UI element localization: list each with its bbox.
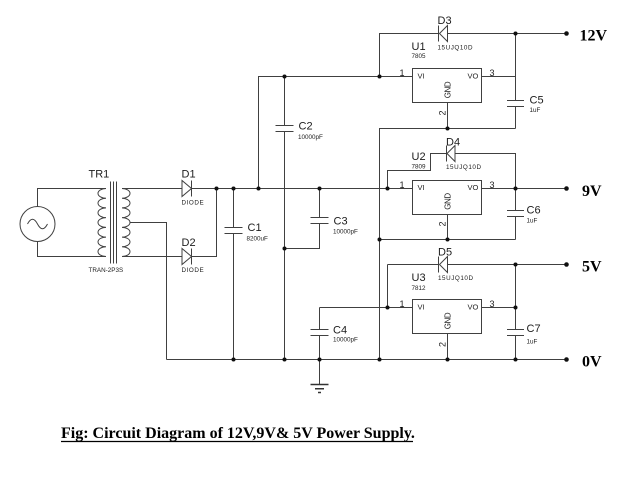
svg-text:GND: GND: [444, 193, 453, 210]
svg-text:C5: C5: [530, 95, 544, 107]
svg-text:C6: C6: [527, 205, 541, 217]
svg-text:TR1: TR1: [89, 169, 110, 181]
ground symbol: [311, 360, 329, 393]
svg-text:1: 1: [399, 68, 404, 78]
wire U3 VI line: [320, 307, 413, 309]
wire D4 feed: [388, 154, 447, 189]
wire center tap: [130, 223, 167, 360]
regulator U3: [413, 300, 482, 334]
svg-text:U1: U1: [412, 41, 426, 53]
svg-text:5V: 5V: [582, 259, 602, 276]
wire D5 feed: [387, 265, 389, 308]
capacitor C4: [311, 308, 329, 360]
wire U2 gnd rail: [379, 239, 516, 241]
wire secondary bottom to D2: [122, 256, 182, 258]
svg-text:DIODE: DIODE: [182, 200, 205, 207]
wire U1 input riser: [259, 77, 413, 189]
svg-text:7805: 7805: [412, 53, 427, 60]
wire ground bus: [379, 129, 381, 360]
capacitor C6: [507, 189, 524, 240]
capacitor C5: [507, 101, 524, 129]
caption: [61, 425, 415, 442]
junction dots U3 line: [386, 306, 518, 310]
junction dot C3 bottom: [283, 247, 287, 251]
junction dots U2 gnd rail: [378, 238, 450, 242]
wire U3 output column: [515, 265, 517, 330]
wire U1 VO: [482, 76, 516, 78]
svg-text:DIODE: DIODE: [182, 267, 205, 274]
wire D4 to output column: [455, 154, 516, 189]
svg-text:2: 2: [437, 342, 447, 347]
capacitor C2: [276, 77, 294, 360]
svg-text:VO: VO: [468, 183, 479, 192]
junction dot U1 gnd: [446, 127, 450, 131]
wire D2 riser: [191, 189, 217, 257]
diode D3: [439, 26, 448, 42]
svg-text:0V: 0V: [582, 354, 602, 371]
svg-text:D1: D1: [182, 169, 196, 181]
wire U1 gnd pin: [447, 103, 449, 129]
junction dots main rail: [215, 187, 518, 191]
svg-text:9V: 9V: [582, 183, 602, 200]
svg-text:U3: U3: [412, 272, 426, 284]
regulator U1: [413, 69, 482, 103]
svg-text:7812: 7812: [412, 285, 427, 292]
svg-text:C1: C1: [248, 222, 262, 234]
svg-text:15UJQ10D: 15UJQ10D: [438, 275, 474, 282]
svg-text:1uF: 1uF: [530, 107, 541, 114]
svg-text:1: 1: [399, 180, 404, 190]
diode D2: [182, 249, 192, 265]
wire 12V line: [448, 33, 567, 35]
svg-text:U2: U2: [412, 151, 426, 163]
wire U2 gnd pin: [447, 215, 449, 240]
wire source bottom: [38, 242, 107, 257]
svg-text:2: 2: [437, 110, 447, 115]
regulator U2: [413, 181, 482, 215]
wire main rail y=188.5: [192, 188, 413, 190]
junction dots ground rail: [232, 358, 518, 362]
AC source V1: [20, 207, 55, 242]
terminal 5V: [564, 259, 602, 276]
svg-text:Fig: Circuit Diagram of 12V,9V: Fig: Circuit Diagram of 12V,9V& 5V Power…: [61, 425, 415, 442]
junction dot 12V line: [514, 32, 518, 36]
svg-text:D3: D3: [438, 15, 452, 27]
svg-text:10000pF: 10000pF: [333, 229, 358, 236]
junction dot 5V line: [514, 263, 518, 267]
svg-text:10000pF: 10000pF: [298, 134, 323, 141]
diode D4: [447, 146, 456, 162]
svg-text:VO: VO: [468, 303, 479, 312]
svg-text:15UJQ10D: 15UJQ10D: [446, 164, 482, 171]
diode D5: [439, 257, 448, 273]
svg-text:VO: VO: [468, 72, 479, 81]
svg-text:TRAN-2P3S: TRAN-2P3S: [89, 267, 124, 274]
svg-text:10000pF: 10000pF: [333, 337, 358, 344]
svg-text:VI: VI: [418, 72, 425, 81]
svg-text:1: 1: [399, 299, 404, 309]
svg-text:VI: VI: [418, 303, 425, 312]
wire U3 VO: [482, 307, 516, 309]
svg-text:GND: GND: [444, 81, 453, 98]
svg-text:1uF: 1uF: [527, 218, 538, 225]
wire D5 line left: [388, 264, 439, 266]
svg-text:C4: C4: [333, 325, 347, 337]
wire U3 gnd pin: [447, 334, 449, 360]
wire secondary top to D1: [122, 188, 182, 190]
capacitor C7: [507, 330, 524, 360]
svg-text:C7: C7: [527, 323, 541, 335]
svg-text:7809: 7809: [412, 164, 427, 171]
terminal 9V: [564, 183, 602, 200]
wire U1 gnd rail: [379, 128, 516, 130]
wire U1 output column: [515, 34, 517, 101]
svg-text:8200uF: 8200uF: [247, 236, 269, 243]
svg-text:C2: C2: [299, 121, 313, 133]
svg-text:2: 2: [437, 221, 447, 226]
transformer TR1: [98, 182, 130, 264]
svg-text:D5: D5: [438, 247, 452, 259]
terminal 0V: [564, 354, 602, 371]
svg-text:D2: D2: [182, 237, 196, 249]
wire D3 feed riser: [380, 34, 439, 77]
wire 5V line: [448, 264, 567, 266]
svg-text:1uF: 1uF: [527, 339, 538, 346]
svg-text:D4: D4: [446, 137, 460, 149]
terminal 12V: [564, 28, 607, 45]
junction dots U1 input line: [283, 75, 382, 79]
svg-text:GND: GND: [444, 312, 453, 329]
wire source top: [38, 189, 107, 207]
svg-text:12V: 12V: [580, 28, 608, 45]
wire ground rail 0V: [167, 359, 567, 361]
svg-text:C3: C3: [334, 216, 348, 228]
diode D1: [182, 181, 192, 197]
capacitor C3: [285, 189, 329, 249]
wire U2 VO 9V line: [482, 188, 567, 190]
capacitor C1: [225, 189, 243, 360]
svg-text:15UJQ10D: 15UJQ10D: [438, 45, 474, 52]
svg-text:VI: VI: [418, 183, 425, 192]
